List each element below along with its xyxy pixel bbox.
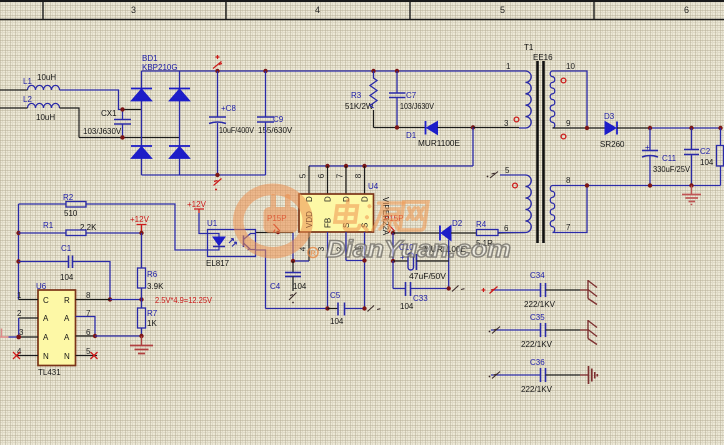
svg-text:222/1KV: 222/1KV bbox=[521, 340, 553, 349]
no-ERC marker right of C33 bbox=[452, 286, 465, 292]
polarity mark pin5 bbox=[513, 183, 518, 188]
inductor L2 bbox=[23, 95, 60, 122]
node C8 top bbox=[215, 69, 219, 73]
wire to T1 pin 3 bbox=[473, 127, 519, 129]
svg-text:6: 6 bbox=[504, 224, 509, 233]
svg-text:R2: R2 bbox=[63, 193, 74, 202]
power port +12V (U1) bbox=[187, 200, 207, 213]
svg-text:4: 4 bbox=[315, 5, 320, 15]
svg-text:47uF/50V: 47uF/50V bbox=[409, 272, 447, 281]
svg-text:L2: L2 bbox=[23, 95, 32, 104]
resistor R2 510 bbox=[63, 193, 86, 218]
svg-text:222/1KV: 222/1KV bbox=[521, 385, 553, 394]
node R1 left bbox=[16, 231, 20, 235]
node pin7/pin8 bbox=[585, 183, 589, 187]
no-ERC marker below C8 bbox=[214, 179, 222, 191]
wire U1 emitter down bbox=[256, 250, 266, 309]
node pin8 rail bbox=[362, 164, 366, 168]
node C11 top bbox=[648, 126, 652, 130]
watermark char dian bbox=[334, 200, 363, 230]
transformer T1 EE16 bbox=[498, 43, 575, 243]
svg-text:2: 2 bbox=[17, 309, 22, 318]
svg-text:10uF/400V: 10uF/400V bbox=[219, 126, 255, 135]
svg-text:510: 510 bbox=[64, 209, 78, 218]
svg-text:C34: C34 bbox=[530, 271, 545, 280]
capacitor C10 47uF/50V bbox=[393, 243, 449, 281]
capacitor C2 104 bbox=[684, 128, 714, 186]
capacitor C8 bbox=[209, 71, 255, 175]
wire T1 pin10 to rectifier bbox=[553, 71, 588, 128]
svg-text:C1: C1 bbox=[61, 244, 72, 253]
node C10 left bbox=[391, 259, 395, 263]
wire left feedback vertical bbox=[18, 204, 20, 300]
no-ERC marker pin5 bbox=[487, 172, 498, 179]
node C9 top bbox=[263, 69, 267, 73]
polarity mark pin10 bbox=[561, 78, 566, 83]
svg-text:R7: R7 bbox=[147, 309, 158, 318]
node CX1 bottom bbox=[120, 135, 124, 139]
node drain riser top bbox=[471, 125, 475, 129]
wire D3 to output bbox=[617, 127, 650, 129]
wire VDD to C4 node bbox=[293, 260, 309, 262]
wire snubber drop bbox=[392, 233, 394, 261]
capacitor C33 bbox=[393, 282, 449, 311]
node VDD/C4 bbox=[291, 259, 295, 263]
no-ERC marker right of C5 bbox=[368, 306, 381, 312]
wire L1 right to CX1 top bbox=[60, 90, 123, 110]
wire output ground rail bbox=[553, 185, 721, 187]
svg-text:SR260: SR260 bbox=[600, 140, 625, 149]
svg-text:C35: C35 bbox=[530, 313, 545, 322]
node R3 top bbox=[371, 69, 375, 73]
svg-text:EL817: EL817 bbox=[206, 259, 230, 268]
svg-text:3: 3 bbox=[131, 5, 136, 15]
wire P15P net vertical bbox=[292, 233, 294, 262]
no-ERC marker C36 left bbox=[489, 372, 500, 379]
svg-text:C4: C4 bbox=[270, 282, 281, 291]
svg-text:104: 104 bbox=[330, 317, 344, 326]
node C5 right / S net bbox=[362, 306, 366, 310]
svg-text:1K: 1K bbox=[147, 319, 157, 328]
wire C33 left drop bbox=[392, 261, 394, 289]
svg-text:C36: C36 bbox=[530, 358, 545, 367]
svg-text:104: 104 bbox=[700, 158, 714, 167]
node C7 top bbox=[395, 69, 399, 73]
wire D2 to R4 bbox=[451, 232, 477, 234]
svg-text:C2: C2 bbox=[700, 147, 711, 156]
svg-text:103/J630V: 103/J630V bbox=[83, 127, 122, 136]
svg-text:8: 8 bbox=[566, 176, 571, 185]
wire L1 left bbox=[0, 89, 28, 91]
IC U6 TL431 bbox=[16, 282, 110, 377]
wire T1 pin9 to D3 bbox=[553, 127, 606, 129]
svg-text:7: 7 bbox=[336, 173, 345, 178]
wire drain riser bbox=[472, 128, 474, 167]
svg-text:330uF/25V: 330uF/25V bbox=[653, 165, 691, 174]
node ground junction bbox=[139, 334, 143, 338]
resistor R7 1K bbox=[138, 300, 158, 337]
svg-text:10: 10 bbox=[566, 62, 575, 71]
svg-text:R4: R4 bbox=[476, 220, 487, 229]
svg-text:10uH: 10uH bbox=[36, 113, 55, 122]
svg-text:3.9K: 3.9K bbox=[147, 282, 164, 291]
no-ERC marker C34 left bbox=[482, 287, 498, 294]
node C33 right bbox=[447, 286, 451, 290]
svg-text:5: 5 bbox=[505, 166, 510, 175]
diode D3 SR260 bbox=[600, 112, 625, 149]
node CX1 top bbox=[120, 107, 124, 111]
wire FB rail bbox=[266, 308, 328, 310]
op IC U4 VIPER22A bbox=[299, 166, 391, 309]
svg-text:+12V: +12V bbox=[130, 215, 150, 224]
no-ERC X pin5 bbox=[91, 352, 98, 359]
wire L2 left bbox=[0, 107, 28, 109]
svg-text:5: 5 bbox=[299, 173, 308, 178]
diode D2 MUR1100E bbox=[424, 219, 466, 254]
node pin9/pin10 bbox=[585, 126, 589, 130]
capacitor C35 222/1KV bbox=[491, 313, 580, 349]
svg-text:103/J630V: 103/J630V bbox=[400, 102, 435, 111]
wire D1 to drain riser bbox=[438, 127, 474, 129]
svg-text:3: 3 bbox=[504, 119, 509, 128]
border tick marks bbox=[43, 1, 594, 20]
node FB rail bbox=[325, 306, 329, 310]
ground (TL431) bbox=[130, 336, 153, 354]
wire CX1 top to bridge bbox=[123, 109, 142, 111]
svg-text:A: A bbox=[64, 314, 70, 323]
svg-text:D: D bbox=[324, 196, 333, 202]
svg-text:A: A bbox=[43, 333, 49, 342]
svg-text:10uH: 10uH bbox=[37, 73, 56, 82]
svg-text:D2: D2 bbox=[452, 219, 463, 228]
svg-text:C11: C11 bbox=[662, 154, 677, 163]
svg-text:5: 5 bbox=[86, 347, 91, 356]
capacitor C4 bbox=[270, 261, 307, 291]
svg-text:D3: D3 bbox=[604, 112, 615, 121]
node pin7 rail bbox=[344, 164, 348, 168]
node load top bbox=[718, 126, 722, 130]
wire R3 bottom to D1 bbox=[374, 127, 426, 129]
wire P15P node to D2 bbox=[393, 232, 440, 234]
node +12V/R1/R6 bbox=[139, 231, 143, 235]
wire T1 pin7 up bbox=[553, 186, 588, 233]
node D2 anode net bbox=[391, 231, 395, 235]
wire R1 left bbox=[19, 232, 67, 234]
svg-text:CX1: CX1 bbox=[101, 109, 117, 118]
resistor R3 51K/2W bbox=[345, 71, 377, 128]
svg-text:155/630V: 155/630V bbox=[258, 126, 293, 135]
chassis ground C34 bbox=[580, 280, 597, 305]
node C2 top bbox=[689, 126, 693, 130]
svg-text:N: N bbox=[43, 352, 49, 361]
node snubber junction bbox=[395, 125, 399, 129]
wire S pins join bbox=[346, 260, 365, 262]
wire CX1 bottom to bridge right leg bbox=[79, 137, 180, 139]
watermark plug bbox=[264, 194, 298, 233]
capacitor C7 bbox=[389, 71, 435, 128]
svg-text:104: 104 bbox=[293, 282, 307, 291]
resistor R6 3.9K bbox=[138, 233, 165, 300]
resistor R4 5.1R bbox=[476, 220, 498, 248]
ground (output) bbox=[682, 186, 701, 206]
wire R1 right bbox=[86, 232, 142, 234]
capacitor C36 222/1KV bbox=[491, 358, 580, 394]
sheet border top line bbox=[0, 1, 724, 20]
inductor L1 bbox=[23, 73, 60, 90]
svg-text:A: A bbox=[43, 314, 49, 323]
svg-text:R3: R3 bbox=[351, 91, 362, 100]
svg-text:L1: L1 bbox=[23, 77, 32, 86]
port stub at left edge bbox=[0, 329, 9, 338]
no-ERC marker below C4 bbox=[289, 293, 297, 304]
resistor load right edge bbox=[717, 128, 724, 186]
capacitor CX1 bbox=[83, 109, 131, 138]
svg-text:104: 104 bbox=[400, 302, 414, 311]
polarity mark pin3 bbox=[514, 117, 519, 122]
node TL431 anode bbox=[93, 334, 97, 338]
svg-text:BD1: BD1 bbox=[142, 54, 158, 63]
svg-text:+12V: +12V bbox=[187, 200, 207, 209]
node C11 bottom bbox=[648, 183, 652, 187]
capacitor C5 bbox=[328, 291, 365, 326]
svg-text:U1: U1 bbox=[207, 219, 218, 228]
bridge rectifier BD1 KBP210G bbox=[131, 54, 190, 175]
wire ref rail to divider bbox=[110, 299, 142, 301]
svg-text:6: 6 bbox=[684, 5, 689, 15]
no-ERC marker above C8 bbox=[213, 55, 222, 69]
svg-text:C7: C7 bbox=[406, 91, 417, 100]
svg-text:1: 1 bbox=[17, 291, 22, 300]
polarity mark pin9 bbox=[561, 134, 566, 139]
resistor R1 2.2K bbox=[43, 221, 97, 236]
wire drain rail bbox=[309, 165, 473, 167]
wire R4 to T1 pin6 bbox=[498, 232, 525, 235]
svg-text:MUR1100E: MUR1100E bbox=[418, 139, 460, 148]
svg-text:T1: T1 bbox=[524, 43, 534, 52]
svg-text:U4: U4 bbox=[368, 182, 379, 191]
wire R2 right to U1 cathode bbox=[86, 204, 208, 250]
svg-text:D: D bbox=[361, 196, 370, 202]
svg-text:C33: C33 bbox=[413, 294, 428, 303]
node C2 bottom bbox=[689, 183, 693, 187]
svg-text:DianYuan.com: DianYuan.com bbox=[326, 236, 511, 263]
wire U1 collector to P15P bbox=[256, 232, 294, 234]
node S join bbox=[362, 258, 366, 262]
node C1 left bbox=[16, 259, 20, 263]
node divider mid bbox=[139, 297, 143, 301]
power ground C36 bbox=[580, 366, 597, 384]
svg-text:2.5V*4.9=12.25V: 2.5V*4.9=12.25V bbox=[155, 296, 213, 305]
wire output rail bbox=[650, 127, 721, 129]
wire L2 right down to CX1 bottom bbox=[60, 108, 80, 138]
svg-text:R6: R6 bbox=[147, 270, 158, 279]
capacitor C9 bbox=[257, 71, 293, 175]
node C8 bottom bbox=[215, 173, 219, 177]
svg-text:TL431: TL431 bbox=[38, 368, 61, 377]
no-ERC marker C35 left bbox=[489, 327, 500, 334]
capacitor C11 330uF/25V bbox=[642, 128, 691, 186]
svg-text:C: C bbox=[43, 296, 49, 305]
svg-text:D1: D1 bbox=[406, 131, 417, 140]
svg-text:104: 104 bbox=[60, 273, 74, 282]
capacitor C1 bbox=[19, 244, 111, 300]
capacitor C34 222/1KV bbox=[491, 271, 580, 309]
no-ERC X pin4 bbox=[13, 352, 20, 359]
optocoupler U1 EL817 bbox=[206, 219, 256, 268]
node C1 to ref rail bbox=[108, 297, 112, 301]
svg-text:FB: FB bbox=[324, 218, 333, 228]
node pin6 rail bbox=[325, 164, 329, 168]
svg-text:1: 1 bbox=[506, 62, 511, 71]
svg-text:5: 5 bbox=[500, 5, 505, 15]
power port P15P right bbox=[384, 214, 404, 233]
watermark char yuan bbox=[363, 203, 404, 230]
wire DC bottom rail bbox=[142, 174, 266, 176]
diode D1 MUR1100E bbox=[406, 121, 460, 148]
svg-text:A: A bbox=[64, 333, 70, 342]
wire DC bus top rail bbox=[142, 70, 518, 72]
svg-text:8: 8 bbox=[86, 291, 91, 300]
svg-text:N: N bbox=[64, 352, 70, 361]
chassis ground C35 bbox=[580, 320, 597, 345]
svg-text:7: 7 bbox=[566, 223, 571, 232]
border zone numbers 3 4 5 6 bbox=[131, 5, 689, 15]
watermark char wang bbox=[400, 202, 428, 230]
svg-text:+C8: +C8 bbox=[221, 104, 236, 113]
svg-text:9: 9 bbox=[566, 119, 571, 128]
svg-text:C9: C9 bbox=[273, 115, 284, 124]
svg-text:51K/2W: 51K/2W bbox=[345, 102, 374, 111]
power port P15P left bbox=[267, 214, 287, 234]
wire R2 left bbox=[19, 203, 67, 205]
svg-text:6: 6 bbox=[317, 173, 326, 178]
svg-text:R1: R1 bbox=[43, 221, 54, 230]
watermark registered mark bbox=[308, 248, 318, 258]
wire D2 corner drop bbox=[448, 240, 450, 289]
svg-text:C5: C5 bbox=[330, 291, 341, 300]
svg-text:R: R bbox=[64, 296, 70, 305]
power port +12V (divider) bbox=[130, 215, 150, 233]
svg-text:222/1KV: 222/1KV bbox=[524, 300, 556, 309]
wire +12V to U1 anode bbox=[199, 213, 208, 234]
svg-text:R: R bbox=[310, 249, 316, 258]
svg-text:EE16: EE16 bbox=[533, 53, 553, 62]
wire anode to ground bbox=[95, 335, 142, 337]
svg-text:8: 8 bbox=[354, 173, 363, 178]
node pin3 junction bbox=[16, 335, 21, 340]
watermark logo ring bbox=[233, 184, 313, 259]
